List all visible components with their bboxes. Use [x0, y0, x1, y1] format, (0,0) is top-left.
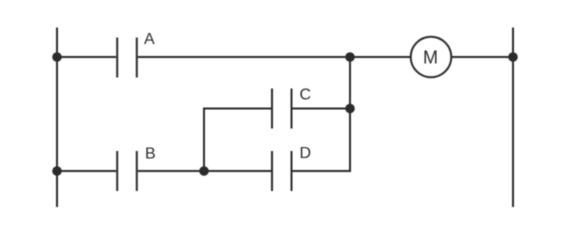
wire top rung left segment	[57, 56, 116, 58]
wire top rung right segment	[451, 56, 513, 58]
wire top rung middle segment	[138, 56, 411, 58]
wire bottom rung middle segment	[138, 170, 271, 172]
left power rail	[56, 28, 58, 208]
svg-text:D: D	[300, 145, 312, 162]
contact B	[117, 151, 137, 191]
motor coil M	[411, 37, 452, 78]
node left rail / bottom rung	[52, 166, 62, 176]
contact D	[272, 151, 292, 191]
contact C	[272, 89, 292, 129]
node C-D branch junction	[199, 166, 209, 176]
wire C-branch left vertical	[204, 109, 271, 172]
node right rail / top rung	[508, 52, 518, 62]
node mid vertical / C branch	[345, 104, 355, 114]
svg-text:A: A	[144, 31, 155, 48]
node mid vertical / top rung	[345, 52, 355, 62]
node left rail / top rung	[52, 52, 62, 62]
right power rail	[512, 28, 514, 208]
svg-text:B: B	[145, 146, 156, 163]
wire C-branch right segment	[293, 108, 351, 110]
svg-text:C: C	[300, 86, 312, 103]
wire bottom rung left segment	[57, 170, 116, 172]
wire bottom rung right segment	[293, 170, 352, 172]
contact A	[117, 38, 137, 78]
svg-text:M: M	[423, 47, 438, 67]
wire mid vertical	[349, 57, 351, 171]
